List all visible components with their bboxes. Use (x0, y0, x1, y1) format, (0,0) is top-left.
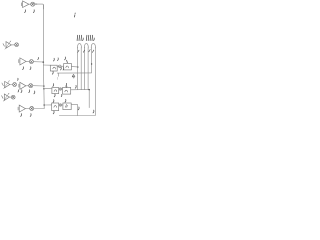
microphone mark M5 (2, 96, 3, 99)
wire (33, 61, 43, 63)
multiplier X6 (30, 107, 34, 111)
multiplier X4 (29, 84, 33, 88)
bus line 1 (77, 48, 79, 90)
microphone stub M3 (18, 60, 20, 63)
node (91, 63, 92, 64)
wire (59, 48, 95, 116)
microphone mark M7 (2, 83, 3, 86)
hash specks (78, 50, 94, 53)
node (88, 89, 90, 91)
wire (44, 87, 52, 90)
wire (11, 44, 14, 46)
label (60, 67, 63, 70)
wire trunk (42, 5, 45, 108)
label 4 (32, 10, 35, 13)
figure label (73, 13, 76, 17)
block B2 (64, 64, 72, 70)
amplifier A4 (20, 82, 26, 89)
label (52, 111, 55, 114)
label 4 (72, 74, 75, 78)
wire (9, 96, 11, 98)
label (53, 94, 56, 97)
wire (29, 3, 31, 5)
label tick curl (92, 38, 95, 40)
wire (35, 4, 44, 9)
label (56, 58, 59, 61)
node C2 (59, 88, 61, 90)
wire (59, 88, 63, 90)
wire dots (56, 78, 58, 80)
wire (26, 60, 29, 62)
multiplier X3 (29, 60, 33, 64)
amplifier A3 (20, 58, 26, 65)
label (52, 58, 55, 61)
label (20, 114, 23, 117)
node J4 (43, 104, 45, 106)
microphone mark M2 (3, 44, 4, 47)
wire (71, 104, 77, 115)
node C1 (59, 65, 62, 68)
multiplier X7 (13, 83, 17, 87)
wire (33, 85, 44, 87)
wire (57, 65, 64, 67)
bus pair bridge 3 (91, 44, 95, 48)
wire (57, 73, 91, 76)
amplifier A5 (4, 94, 9, 100)
label (52, 100, 55, 103)
block B4 (63, 87, 71, 94)
label (64, 99, 67, 102)
label (29, 67, 32, 70)
node (77, 66, 79, 68)
label 2 (24, 10, 27, 13)
amplifier A2 (6, 42, 11, 49)
multiplier X1 (31, 2, 35, 6)
bus pair bridge 1 (78, 44, 82, 48)
wire (26, 85, 29, 87)
wire (10, 84, 13, 86)
block B1 (50, 65, 57, 71)
label (33, 91, 36, 94)
bus line 5 (90, 48, 92, 73)
block B6 (63, 103, 71, 110)
microphone stub M6 (17, 107, 19, 110)
node C3 (59, 104, 61, 106)
amplifier A1 (23, 1, 29, 8)
label (60, 94, 63, 96)
multiplier X2 (15, 43, 19, 47)
label (20, 90, 23, 93)
label (28, 90, 31, 93)
label (77, 107, 80, 110)
label speck (92, 110, 95, 113)
bus line 3 (84, 48, 86, 90)
block B5 (52, 103, 59, 111)
microphone stub M4 (18, 84, 20, 87)
multiplier X5 (11, 95, 15, 99)
wire (71, 89, 90, 91)
node J1 (42, 61, 44, 63)
wire (59, 104, 63, 106)
node J3 (43, 88, 45, 90)
label ticks (86, 35, 92, 40)
label (66, 83, 67, 87)
label tick curl (81, 38, 84, 40)
label 6 (17, 78, 20, 80)
wire (25, 108, 29, 110)
wire (34, 108, 45, 110)
microphone stub M1 (20, 3, 22, 6)
label speck (37, 57, 40, 59)
wire (71, 66, 77, 68)
wire (43, 64, 50, 66)
label ticks (77, 35, 82, 40)
bus line 2 (80, 48, 82, 90)
label (29, 114, 32, 117)
label (52, 84, 55, 87)
label 8 (74, 85, 77, 88)
bus pair bridge 2 (84, 44, 88, 48)
label (22, 67, 25, 70)
amplifier A7 (5, 81, 10, 87)
label (17, 90, 20, 92)
amplifier A6 (19, 105, 25, 112)
block B3 (52, 88, 59, 94)
node J2 (43, 85, 44, 86)
label (65, 57, 68, 63)
bus line 4 (88, 48, 89, 108)
label (51, 71, 54, 74)
wire (44, 104, 52, 106)
